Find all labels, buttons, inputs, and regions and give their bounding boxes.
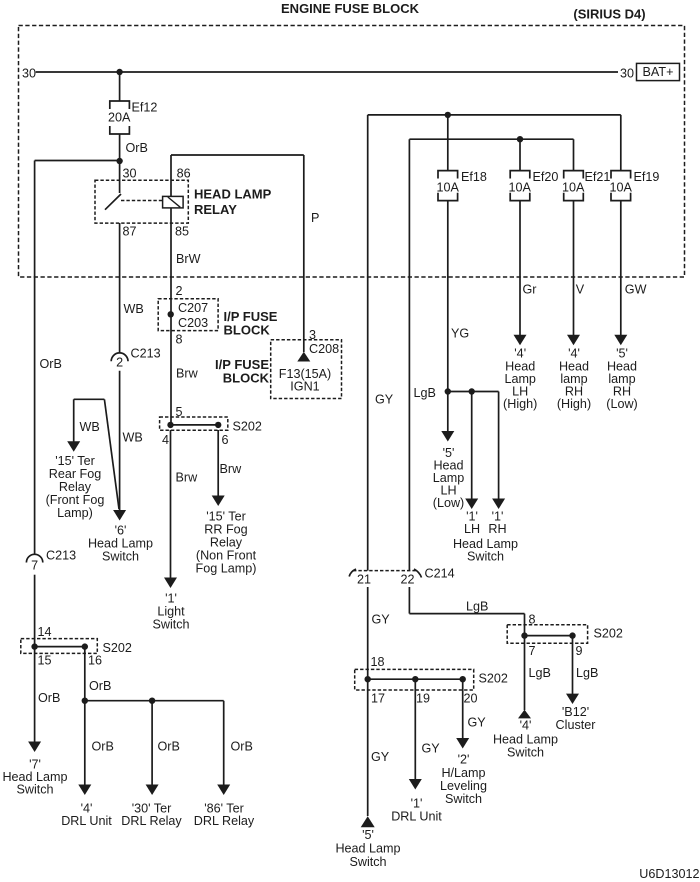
- svg-text:20A: 20A: [108, 111, 131, 125]
- svg-text:Switch: Switch: [16, 783, 53, 797]
- svg-text:'2': '2': [458, 753, 470, 767]
- svg-text:Lamp): Lamp): [57, 506, 93, 520]
- svg-text:Head Lamp: Head Lamp: [335, 842, 400, 856]
- svg-text:22: 22: [401, 573, 415, 587]
- svg-text:'1': '1': [165, 592, 177, 606]
- svg-text:(Front Fog: (Front Fog: [46, 493, 105, 507]
- svg-text:10A: 10A: [610, 181, 633, 195]
- svg-text:(High): (High): [557, 397, 591, 411]
- svg-text:HEAD LAMP: HEAD LAMP: [194, 187, 272, 202]
- svg-text:19: 19: [416, 692, 430, 706]
- svg-text:Ef20: Ef20: [533, 170, 559, 184]
- svg-text:BAT+: BAT+: [643, 65, 674, 79]
- svg-text:Switch: Switch: [445, 792, 482, 806]
- svg-text:Fog Lamp): Fog Lamp): [196, 562, 257, 576]
- svg-text:OrB: OrB: [89, 679, 111, 693]
- svg-text:Ef12: Ef12: [132, 101, 158, 115]
- svg-text:'6': '6': [115, 524, 127, 538]
- svg-text:Cluster: Cluster: [556, 718, 596, 732]
- svg-text:6: 6: [222, 433, 229, 447]
- svg-text:9: 9: [576, 644, 583, 658]
- svg-text:GY: GY: [372, 613, 391, 627]
- svg-text:LgB: LgB: [466, 600, 488, 614]
- svg-text:Switch: Switch: [152, 618, 189, 632]
- svg-text:Brw: Brw: [176, 367, 199, 381]
- svg-text:10A: 10A: [437, 181, 460, 195]
- svg-text:14: 14: [38, 625, 52, 639]
- svg-text:'1': '1': [411, 797, 423, 811]
- svg-text:(SIRIUS D4): (SIRIUS D4): [573, 7, 645, 22]
- svg-text:LgB: LgB: [576, 666, 598, 680]
- svg-text:LgB: LgB: [529, 666, 551, 680]
- svg-text:S202: S202: [594, 627, 623, 641]
- svg-text:ENGINE FUSE BLOCK: ENGINE FUSE BLOCK: [281, 1, 420, 16]
- svg-text:(Low): (Low): [606, 397, 638, 411]
- svg-text:S202: S202: [103, 641, 132, 655]
- svg-text:V: V: [576, 283, 585, 297]
- svg-text:Relay: Relay: [210, 536, 243, 550]
- svg-text:Leveling: Leveling: [440, 779, 487, 793]
- svg-text:8: 8: [176, 333, 183, 347]
- svg-text:(Low): (Low): [433, 496, 465, 510]
- svg-text:WB: WB: [124, 302, 144, 316]
- svg-text:(High): (High): [503, 397, 537, 411]
- svg-text:21: 21: [357, 573, 371, 587]
- svg-text:RH: RH: [488, 522, 506, 536]
- svg-text:3: 3: [309, 328, 316, 342]
- svg-text:Rear Fog: Rear Fog: [49, 467, 102, 481]
- svg-text:OrB: OrB: [126, 141, 148, 155]
- svg-text:7: 7: [529, 644, 536, 658]
- svg-text:LH: LH: [464, 522, 480, 536]
- svg-text:20: 20: [464, 692, 478, 706]
- svg-text:S202: S202: [233, 420, 262, 434]
- svg-text:Head Lamp: Head Lamp: [493, 733, 558, 747]
- svg-text:Relay: Relay: [59, 480, 92, 494]
- svg-text:10A: 10A: [509, 181, 532, 195]
- svg-text:BLOCK: BLOCK: [223, 371, 270, 386]
- svg-text:C208: C208: [309, 342, 339, 356]
- svg-text:16: 16: [88, 654, 102, 668]
- svg-text:C207: C207: [178, 301, 208, 315]
- svg-text:WB: WB: [123, 431, 143, 445]
- svg-text:'4': '4': [520, 719, 532, 733]
- svg-text:S202: S202: [479, 672, 508, 686]
- svg-text:RR Fog: RR Fog: [204, 523, 247, 537]
- svg-text:Ef21: Ef21: [585, 170, 611, 184]
- svg-text:DRL Relay: DRL Relay: [121, 814, 182, 828]
- svg-text:(Non Front: (Non Front: [196, 549, 257, 563]
- svg-text:'15' Ter: '15' Ter: [206, 510, 246, 524]
- svg-text:'5': '5': [362, 828, 374, 842]
- svg-text:P: P: [311, 211, 319, 225]
- svg-text:Gr: Gr: [523, 283, 537, 297]
- svg-text:Switch: Switch: [507, 746, 544, 760]
- svg-text:Switch: Switch: [467, 550, 504, 564]
- svg-text:BrW: BrW: [176, 252, 201, 266]
- svg-text:Head Lamp: Head Lamp: [88, 537, 153, 551]
- svg-text:U6D13012: U6D13012: [639, 867, 699, 881]
- svg-text:85: 85: [175, 225, 189, 239]
- svg-text:C203: C203: [178, 316, 208, 330]
- svg-text:OrB: OrB: [38, 691, 60, 705]
- svg-text:GY: GY: [371, 750, 390, 764]
- svg-text:YG: YG: [451, 327, 469, 341]
- svg-text:'B12': 'B12': [562, 705, 589, 719]
- svg-text:2: 2: [176, 284, 183, 298]
- svg-text:H/Lamp: H/Lamp: [441, 766, 485, 780]
- svg-text:GY: GY: [468, 716, 487, 730]
- svg-text:Light: Light: [157, 605, 185, 619]
- svg-text:GY: GY: [422, 742, 441, 756]
- svg-text:WB: WB: [80, 420, 100, 434]
- svg-text:GY: GY: [375, 393, 394, 407]
- svg-text:2: 2: [116, 356, 123, 370]
- svg-text:Switch: Switch: [102, 550, 139, 564]
- svg-text:Ef18: Ef18: [461, 170, 487, 184]
- svg-text:30: 30: [620, 67, 634, 81]
- svg-text:Ef19: Ef19: [634, 170, 660, 184]
- svg-text:C214: C214: [425, 567, 455, 581]
- svg-text:BLOCK: BLOCK: [224, 323, 271, 338]
- svg-text:GW: GW: [625, 283, 647, 297]
- svg-text:DRL Relay: DRL Relay: [194, 814, 255, 828]
- svg-text:C213: C213: [46, 549, 76, 563]
- svg-text:10A: 10A: [562, 181, 585, 195]
- svg-text:OrB: OrB: [158, 740, 180, 754]
- svg-text:Brw: Brw: [176, 471, 199, 485]
- svg-text:4: 4: [162, 433, 169, 447]
- svg-text:OrB: OrB: [40, 357, 62, 371]
- svg-text:18: 18: [371, 655, 385, 669]
- svg-text:87: 87: [123, 225, 137, 239]
- svg-text:DRL Unit: DRL Unit: [391, 810, 442, 824]
- svg-text:IGN1: IGN1: [290, 380, 319, 394]
- svg-text:RELAY: RELAY: [194, 202, 237, 217]
- svg-text:15: 15: [38, 654, 52, 668]
- svg-text:86: 86: [177, 167, 191, 181]
- svg-text:30: 30: [22, 67, 36, 81]
- svg-text:Brw: Brw: [220, 462, 243, 476]
- svg-text:Switch: Switch: [349, 855, 386, 869]
- svg-text:LgB: LgB: [414, 386, 436, 400]
- svg-text:7: 7: [31, 559, 38, 573]
- svg-text:C213: C213: [131, 347, 161, 361]
- svg-text:'15' Ter: '15' Ter: [55, 454, 95, 468]
- svg-text:DRL Unit: DRL Unit: [61, 814, 112, 828]
- svg-text:17: 17: [371, 692, 385, 706]
- svg-text:OrB: OrB: [92, 740, 114, 754]
- svg-text:OrB: OrB: [231, 740, 253, 754]
- svg-text:30: 30: [123, 167, 137, 181]
